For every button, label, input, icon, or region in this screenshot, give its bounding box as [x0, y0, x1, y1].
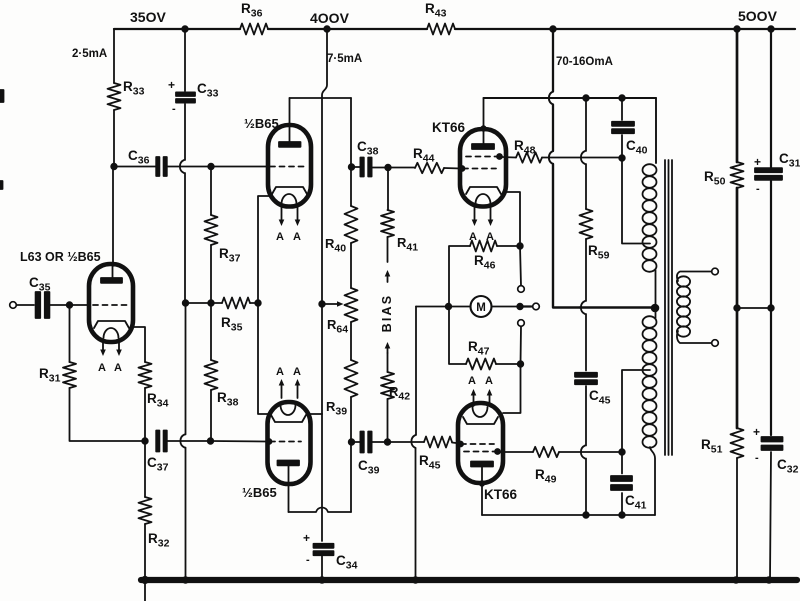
wire meter right	[492, 306, 521, 308]
wire C33 line to R35 node	[184, 173, 186, 303]
node top rail junctions	[182, 26, 188, 32]
node meter-R46 junction	[446, 304, 452, 310]
wire grid wire to V3 grid	[211, 440, 267, 443]
wire V5 anode down	[481, 466, 483, 515]
tube V1 L63 envelope	[89, 264, 133, 342]
meter M	[471, 296, 492, 317]
wire hop feed over screen wire	[549, 151, 553, 164]
node R51 ground	[733, 577, 739, 583]
wire R46 right	[497, 245, 520, 247]
tube V1 cathode lead	[131, 327, 145, 362]
wire to C45	[585, 314, 587, 371]
node centre tap	[652, 305, 659, 312]
node R38-grid wire junction	[208, 438, 214, 444]
svg-text:A: A	[485, 375, 493, 387]
svg-text:A: A	[293, 366, 301, 378]
wire 350V down to R33	[113, 29, 115, 83]
wire R59 upper mid	[585, 164, 587, 209]
wire R64-R39	[350, 322, 352, 360]
svg-text:5OOV: 5OOV	[738, 8, 778, 24]
wire junction to C32	[770, 308, 772, 435]
terminal link lower	[518, 320, 525, 327]
wire R38 bottom	[210, 390, 212, 441]
wire R44 to KT66 grid	[444, 167, 461, 170]
svg-text:A: A	[468, 375, 476, 387]
node C45 bottom junction	[583, 512, 589, 518]
wire anode horizontal 400V node	[290, 97, 352, 99]
svg-text:4OOV: 4OOV	[310, 10, 350, 26]
svg-text:A: A	[293, 231, 301, 243]
edge mark left upper	[0, 90, 4, 102]
node meter leg ground	[413, 577, 419, 583]
wire meter stub to link	[520, 305, 532, 307]
wire C38 left	[352, 166, 361, 168]
wire hop meter leg over R45 wire	[411, 435, 415, 448]
wire C39 to R42 node	[372, 441, 388, 443]
wire anode run up to C39 node	[350, 442, 352, 512]
svg-text:-: -	[755, 452, 759, 464]
wire C35 to grid node	[50, 304, 90, 306]
transformer primary upper winding	[643, 164, 657, 272]
svg-text:2·5mA: 2·5mA	[72, 48, 107, 60]
wire V5 screen to R49	[500, 451, 533, 453]
wire meter ground leg	[415, 307, 417, 436]
tube V1 grid dashes	[93, 304, 128, 306]
node R47 right junction	[518, 361, 524, 367]
wire C39 left	[352, 441, 361, 443]
wire hop R59 line over CT wire	[581, 301, 585, 314]
svg-text:½B65: ½B65	[242, 485, 277, 500]
wire V2 cathode to V3 cathode	[258, 196, 269, 414]
wire R35 to cathode line	[250, 302, 258, 304]
wire R59 bottom	[585, 239, 587, 301]
terminal link upper	[518, 286, 525, 293]
tube V5 heater legs	[473, 393, 475, 406]
wire R33 to anode node	[113, 110, 115, 166]
node C40 bottom junction	[619, 155, 625, 161]
wire cathode line to C34	[321, 414, 323, 541]
node R64 wiper takeoff	[319, 301, 325, 307]
wire V4 cathode lead	[503, 192, 520, 246]
wire V5 anode run to transformer	[482, 514, 655, 516]
wire R46 left	[449, 246, 470, 307]
wire C45 down	[585, 386, 587, 446]
capacitor C45	[575, 373, 597, 377]
wire C40 node to primary tap	[622, 158, 650, 244]
wire meter left	[416, 306, 471, 308]
wire V4 anode up	[483, 98, 485, 144]
svg-text:-: -	[306, 554, 310, 566]
resistor R51	[731, 428, 744, 458]
wire 500V to R50	[736, 29, 739, 162]
tube V5 anode	[471, 462, 493, 467]
node C31-C32 junction	[768, 305, 774, 311]
wire R47 node to V5 cathode	[503, 364, 521, 413]
node V3 anode-C39 junction	[349, 439, 355, 445]
tube V4 anode	[472, 144, 494, 149]
resistor R45	[424, 437, 452, 448]
node C41 bottom junction	[619, 512, 625, 518]
svg-text:70-16OmA: 70-16OmA	[556, 56, 613, 68]
node ground rail left	[142, 577, 148, 583]
tube V1 anode	[101, 278, 122, 283]
tube V4 cathode	[466, 187, 501, 194]
wire hop C33 line over C36 wire	[180, 160, 184, 173]
svg-text:A: A	[98, 362, 106, 374]
resistor R59	[580, 209, 593, 239]
node C41-R49 junction	[619, 449, 625, 455]
node V4 anode top-cap	[481, 126, 486, 131]
svg-text:+: +	[303, 531, 310, 545]
wire R32 top	[144, 441, 146, 497]
bias arrow lower	[387, 346, 389, 353]
capacitor C32	[762, 437, 783, 442]
wire R41 bottom	[387, 237, 389, 262]
wire C41 top lead	[621, 452, 623, 474]
tube V3 anode	[278, 461, 300, 466]
capacitor C37	[156, 431, 159, 452]
node C32 ground	[766, 577, 772, 583]
tube V3 envelope	[268, 402, 311, 484]
tube V4 grid dashes	[463, 168, 496, 170]
svg-text:-: -	[172, 103, 176, 115]
node meter right junction	[517, 304, 523, 310]
svg-text:35OV: 35OV	[130, 9, 166, 25]
wire V3 anode run with hop	[289, 508, 352, 513]
tube V1 cathode	[94, 321, 129, 328]
wire hop over C37 wire	[180, 435, 184, 448]
transformer core	[664, 160, 666, 455]
tube V2 cathode	[272, 187, 307, 194]
resistor R36	[240, 24, 268, 35]
terminal input	[10, 302, 17, 309]
svg-text:A: A	[276, 366, 284, 378]
wire R37 top	[210, 167, 212, 216]
wire R59 top	[585, 98, 587, 151]
node R41 top	[385, 165, 391, 171]
wire C36 to R37 node	[167, 166, 267, 168]
svg-text:+: +	[168, 78, 175, 92]
wire hop feed over anode line	[549, 92, 553, 105]
wire top rail 350V-400V-500V	[114, 28, 795, 30]
resistor R49	[533, 447, 559, 457]
resistor R46	[470, 241, 497, 252]
node V4 grid pin	[460, 166, 465, 171]
wire R47 left	[449, 307, 466, 365]
node R59 top	[583, 95, 589, 101]
tube V2 envelope	[268, 125, 311, 207]
wire input to C35	[17, 304, 35, 306]
capacitor C35	[36, 292, 41, 318]
wire R34 to C37 node	[144, 388, 146, 441]
node C34 ground	[319, 577, 325, 583]
wire C33 top lead	[184, 29, 186, 91]
wire R38 top	[210, 303, 212, 360]
node R46-cathode junction	[517, 243, 523, 249]
transformer primary lower winding	[643, 316, 657, 448]
wire V4 anode to transformer	[484, 97, 657, 99]
wire meter leg to rail	[415, 448, 417, 580]
wire transformer top lead	[655, 98, 657, 163]
resistor R50	[731, 162, 744, 188]
svg-text:+: +	[754, 155, 761, 169]
node V5 anode bottom	[480, 481, 485, 486]
wiper arrow R64	[322, 303, 337, 305]
tube V5 screen dashes	[464, 451, 498, 453]
wire C45 to bottom wire	[585, 459, 587, 516]
wire link upper to R46 node	[520, 246, 521, 286]
resistor R47	[466, 359, 496, 370]
tube V4 envelope	[460, 129, 506, 207]
wire R42 bottom	[387, 399, 389, 442]
capacitor C40	[621, 98, 623, 120]
node V2 anode-C38 junction	[349, 164, 355, 170]
wire wiper line to V3 cathode	[321, 304, 323, 414]
wire 500V to C31	[770, 29, 772, 168]
svg-text:+: +	[753, 425, 760, 439]
wire V3 cathode right lead	[308, 413, 322, 415]
resistor R44	[415, 163, 444, 173]
resistor R64 potentiometer	[345, 288, 358, 322]
capacitor C41	[611, 476, 632, 481]
node ground C33 line	[183, 577, 189, 583]
wire C31 to junction	[770, 181, 772, 308]
wire C40 bottom lead	[621, 135, 623, 158]
wire HT-wiper line down	[321, 98, 323, 302]
capacitor C39	[360, 432, 363, 453]
tube V4 heater legs	[474, 207, 476, 222]
svg-text:KT66: KT66	[484, 487, 518, 502]
wire down to ground rail	[185, 448, 187, 581]
node R35-cathode junction	[255, 300, 261, 306]
wire lower tap to C41	[622, 370, 650, 452]
resistor R43	[427, 24, 455, 35]
wire R48 to C40 node	[542, 157, 622, 159]
wire primary CT segment	[655, 270, 657, 318]
svg-text:-: -	[756, 183, 760, 195]
node C33-R35 junction	[183, 300, 189, 306]
node V1 anode	[111, 164, 117, 170]
wire hop R59 line over screen wire	[581, 151, 585, 164]
svg-text:KT66: KT66	[432, 120, 466, 135]
wire link lower to R47	[520, 326, 523, 364]
wire V3 anode down	[288, 465, 290, 512]
resistor R48	[516, 152, 542, 162]
resistor R35	[222, 298, 250, 309]
capacitor C36	[156, 157, 159, 176]
tube V3 cathode	[271, 415, 306, 422]
wire CT heavy	[580, 306, 655, 308]
wire R50 to junction	[736, 188, 739, 308]
svg-text:A: A	[114, 362, 122, 374]
wire feed mid	[552, 105, 554, 152]
wire R47 right	[496, 363, 521, 365]
wire secondary bottom lead	[677, 331, 711, 343]
tube V4 screen dashes	[466, 156, 500, 158]
tube V3 grid dashes	[270, 441, 301, 443]
node R37 top	[208, 164, 214, 170]
resistor R31	[63, 362, 76, 388]
node V5 screen pin	[495, 449, 500, 454]
resistor R38	[205, 360, 218, 390]
tube V1 heater legs	[102, 340, 104, 352]
node V4 screen pin	[497, 154, 502, 159]
node V5 grid pin	[458, 442, 463, 447]
svg-text:A: A	[276, 231, 284, 243]
wire C36 node to tube grid	[114, 166, 157, 168]
wire C34 to rail	[321, 556, 323, 580]
resistor R33	[108, 83, 121, 110]
node V3 grid pin	[267, 439, 272, 444]
capacitor C34	[314, 544, 334, 548]
wire C37 to R38 node	[167, 440, 210, 442]
tube V3 heater legs	[281, 383, 283, 398]
wire C41 bottom lead	[621, 493, 623, 515]
wire R50-C31 junction link	[737, 307, 771, 309]
wire 400V drop	[322, 29, 327, 98]
capacitor C38	[360, 158, 363, 177]
tube V2 anode	[279, 142, 301, 147]
wire R35 row	[186, 302, 223, 304]
svg-text:L63 OR ½B65: L63 OR ½B65	[20, 250, 101, 264]
node C37-R34-R32 junction	[142, 438, 148, 444]
wire R31 bottom corner	[70, 388, 146, 441]
wire screen to R48	[502, 156, 516, 159]
wire R51 to rail	[736, 458, 738, 580]
tube V2 grid dashes	[270, 166, 305, 168]
ground rail	[141, 577, 797, 583]
bias arrow upper	[387, 274, 389, 282]
tube V5 cathode	[463, 417, 498, 424]
resistor R42	[381, 372, 394, 399]
svg-text:BIAS: BIAS	[380, 294, 394, 333]
resistor R39	[345, 360, 358, 397]
wire hop C45 line over R49 wire	[581, 446, 585, 459]
wire V2 anode up	[289, 98, 291, 142]
wire feed to CT corner	[553, 164, 580, 308]
resistor R34	[139, 362, 152, 388]
node R37-R38-R35 junction	[208, 300, 214, 306]
wire R37 bottom	[210, 245, 212, 303]
capacitor C33	[176, 92, 195, 96]
wire transformer bottom lead	[650, 447, 655, 515]
wire C33 down	[184, 104, 186, 160]
wire secondary top lead	[677, 272, 711, 282]
terminal output top	[712, 268, 719, 275]
transformer secondary winding	[677, 276, 690, 336]
wire R42 top	[387, 353, 389, 372]
wire C38 to R44	[372, 167, 415, 169]
resistor R31 wire top	[69, 305, 71, 362]
wire V1 anode to node	[112, 166, 114, 266]
resistor R40	[345, 206, 358, 243]
node R42-C39 junction	[385, 439, 391, 445]
tube V5 envelope	[458, 403, 503, 483]
wire R49 to C41 node	[559, 451, 622, 453]
capacitor C31	[755, 168, 782, 172]
terminal link right	[533, 303, 540, 310]
wire R40 chain top	[350, 98, 352, 206]
node C40 top	[619, 95, 625, 101]
wire 70-160mA feed	[552, 29, 554, 92]
terminal output bottom	[712, 340, 719, 347]
wire C32 to rail	[770, 452, 771, 580]
wire R40-R64	[350, 243, 352, 288]
node R50-R51 junction	[734, 305, 740, 311]
tube V5 grid dashes	[461, 443, 494, 445]
wire down to C37 hop	[185, 303, 187, 435]
wire R32 to rail	[144, 524, 146, 601]
svg-text:7·5mA: 7·5mA	[327, 53, 362, 65]
node V1 grid	[67, 302, 73, 308]
wire R45 to V5 grid	[452, 443, 460, 444]
resistor R41	[381, 210, 394, 237]
svg-text:M: M	[476, 302, 486, 314]
edge mark left lower	[0, 181, 3, 189]
wire R41 top	[387, 168, 389, 211]
wire R39 bottom	[350, 397, 352, 442]
resistor R32	[139, 497, 152, 524]
tube V2 heater legs	[281, 207, 283, 222]
wire junction to R51	[736, 308, 739, 428]
wire to R45	[388, 441, 425, 443]
resistor R37	[205, 215, 218, 245]
